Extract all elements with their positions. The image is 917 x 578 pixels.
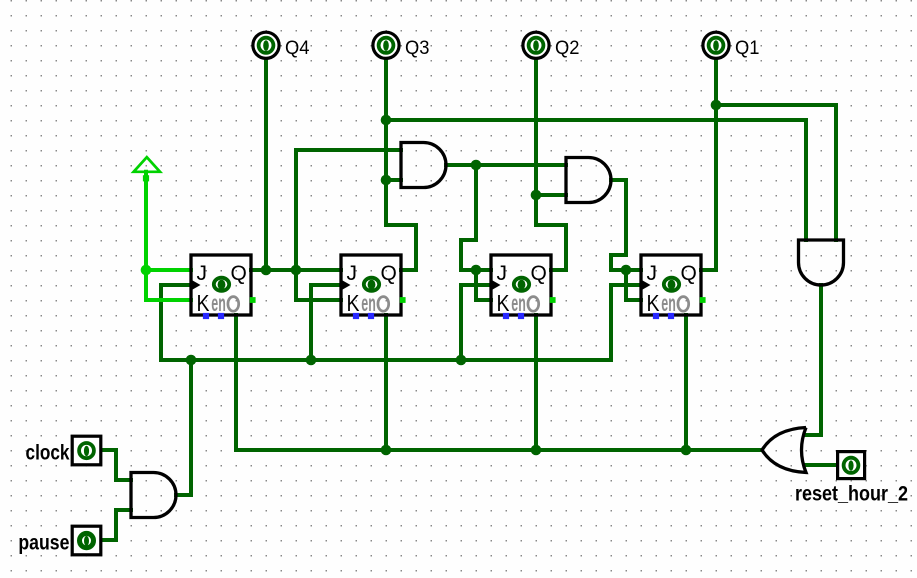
svg-text:K: K xyxy=(347,290,361,316)
node J15 reset line FF4 xyxy=(681,445,692,456)
wire clock bus to FF3 clk xyxy=(461,285,491,360)
node J11 clock bus to FF2 xyxy=(306,355,317,366)
node J14 reset line FF3 xyxy=(531,445,542,456)
node power tie junction xyxy=(141,265,152,276)
output pin Q4 xyxy=(253,32,310,59)
wire FF3 J-K tie xyxy=(476,270,491,300)
svg-text:K: K xyxy=(497,290,511,316)
wire clock bus to FF1 clk xyxy=(161,285,191,360)
flip-flop U6 (bit0) (JK) xyxy=(191,255,256,319)
svg-text:en: en xyxy=(661,290,676,316)
wire FF1.Q to FF2.J xyxy=(251,268,341,272)
input pin reset_hour_2 xyxy=(795,452,908,506)
svg-text:en: en xyxy=(511,290,526,316)
AND gate U1 (Q4*Q3) xyxy=(401,143,446,188)
svg-text:Q: Q xyxy=(381,262,397,285)
power symbol (constant 1) xyxy=(134,157,160,172)
wire pause input to AND4 xyxy=(101,510,131,540)
svg-text:J: J xyxy=(197,262,208,285)
wire Q3 net to AND1 input B xyxy=(386,178,401,182)
wire power to FF1 J xyxy=(146,172,191,270)
wire OR output reset line xyxy=(236,315,762,450)
wire FF3.J stub xyxy=(476,268,491,272)
node J10 clock bus from AND4 xyxy=(186,355,197,366)
svg-text:J: J xyxy=(647,262,658,285)
output pin Q1 xyxy=(703,32,760,59)
wire clock bus xyxy=(161,358,611,362)
OR gate U5 facing west (reset) xyxy=(762,428,806,473)
svg-text:J: J xyxy=(347,262,358,285)
input pin clock xyxy=(26,436,101,465)
wire power FF1 J-K tie xyxy=(146,270,191,300)
svg-text:en: en xyxy=(211,290,226,316)
svg-text:K: K xyxy=(647,290,661,316)
wire reset_hour_2 to OR input B xyxy=(806,463,837,467)
wire Q3 net to AND3 input A xyxy=(386,120,806,240)
svg-text:clock: clock xyxy=(26,441,70,464)
flip-flop U9 (bit3) (JK) xyxy=(641,255,706,319)
wire FF4.Q stub xyxy=(701,268,716,272)
power pin nub xyxy=(143,175,149,181)
node J12 clock bus to FF3 xyxy=(456,355,467,366)
flip-flop U8 (bit2) (JK) xyxy=(491,255,556,319)
wire FF4 reset drop xyxy=(684,315,688,450)
wire clock input to AND4 xyxy=(101,450,131,480)
node J9 Q1 net branch xyxy=(711,100,722,111)
output pin Q2 xyxy=(523,32,580,59)
node J1 Q4 drop on FF1.Q wire xyxy=(261,265,272,276)
wire FF4 J-K tie xyxy=(626,270,641,300)
wire AND1 output down to FF3 xyxy=(461,165,476,270)
wire FF3 reset drop xyxy=(534,315,538,450)
wire FF2 J-K tie xyxy=(296,270,341,300)
wire Q4 pin drop xyxy=(264,57,268,270)
node J13 reset line FF2 xyxy=(381,445,392,456)
svg-text:Q2: Q2 xyxy=(555,38,580,59)
node J2 FF2 tie on FF1.Q wire xyxy=(291,265,302,276)
node J7 Q2 net to AND2 B xyxy=(531,190,542,201)
svg-text:en: en xyxy=(361,290,376,316)
svg-text:J: J xyxy=(497,262,508,285)
node J6 FF3 J-K tie xyxy=(471,265,482,276)
svg-text:Q3: Q3 xyxy=(405,38,430,59)
svg-text:Q: Q xyxy=(531,262,547,285)
wire FF2 reset drop xyxy=(384,315,388,450)
AND gate U3 (Q3*Q1) facing south xyxy=(799,240,844,285)
input pin pause xyxy=(18,526,100,555)
node J3 Q3 net to AND3 line xyxy=(381,115,392,126)
wire AND1 output to AND2 input A xyxy=(446,163,566,167)
svg-text:pause: pause xyxy=(18,531,69,554)
wire FF4.J stub xyxy=(626,268,641,272)
wire AND3 output to OR input A xyxy=(806,285,821,435)
flip-flop U7 (bit1) (JK) xyxy=(341,255,406,319)
wire Q1 pin drop xyxy=(714,57,718,270)
node J8 FF4 J-K tie xyxy=(621,265,632,276)
svg-text:Q1: Q1 xyxy=(735,38,760,59)
wire Q2 pin drop xyxy=(534,57,538,225)
wire clock bus to FF2 clk xyxy=(311,285,341,360)
svg-text:K: K xyxy=(197,290,211,316)
wire Q2 net to AND2 input B xyxy=(536,193,566,197)
svg-text:Q: Q xyxy=(231,262,247,285)
svg-text:Q: Q xyxy=(681,262,697,285)
wire AND4 output to clock bus xyxy=(176,360,191,495)
node J5 AND1 out branch xyxy=(471,160,482,171)
svg-text:reset_hour_2: reset_hour_2 xyxy=(795,483,908,506)
wire AND2 output down to FF4 xyxy=(611,180,626,270)
wire Q2 net to FF3.Q xyxy=(536,225,566,270)
svg-text:Q4: Q4 xyxy=(285,38,310,59)
wire Q3 pin drop xyxy=(384,57,388,225)
wire Q1 net to AND3 input B xyxy=(716,105,836,240)
wire Q3 net to FF2.Q xyxy=(386,225,416,270)
AND gate U2 (U1*Q2) xyxy=(566,158,611,203)
output pin Q3 xyxy=(373,32,430,59)
AND gate U4 (clock*pause) xyxy=(131,473,176,518)
wire FF1.Q up to AND1 input A xyxy=(296,150,401,270)
wire clock bus to FF4 clk xyxy=(611,285,641,360)
node J4 Q3 net to AND1 B xyxy=(381,175,392,186)
